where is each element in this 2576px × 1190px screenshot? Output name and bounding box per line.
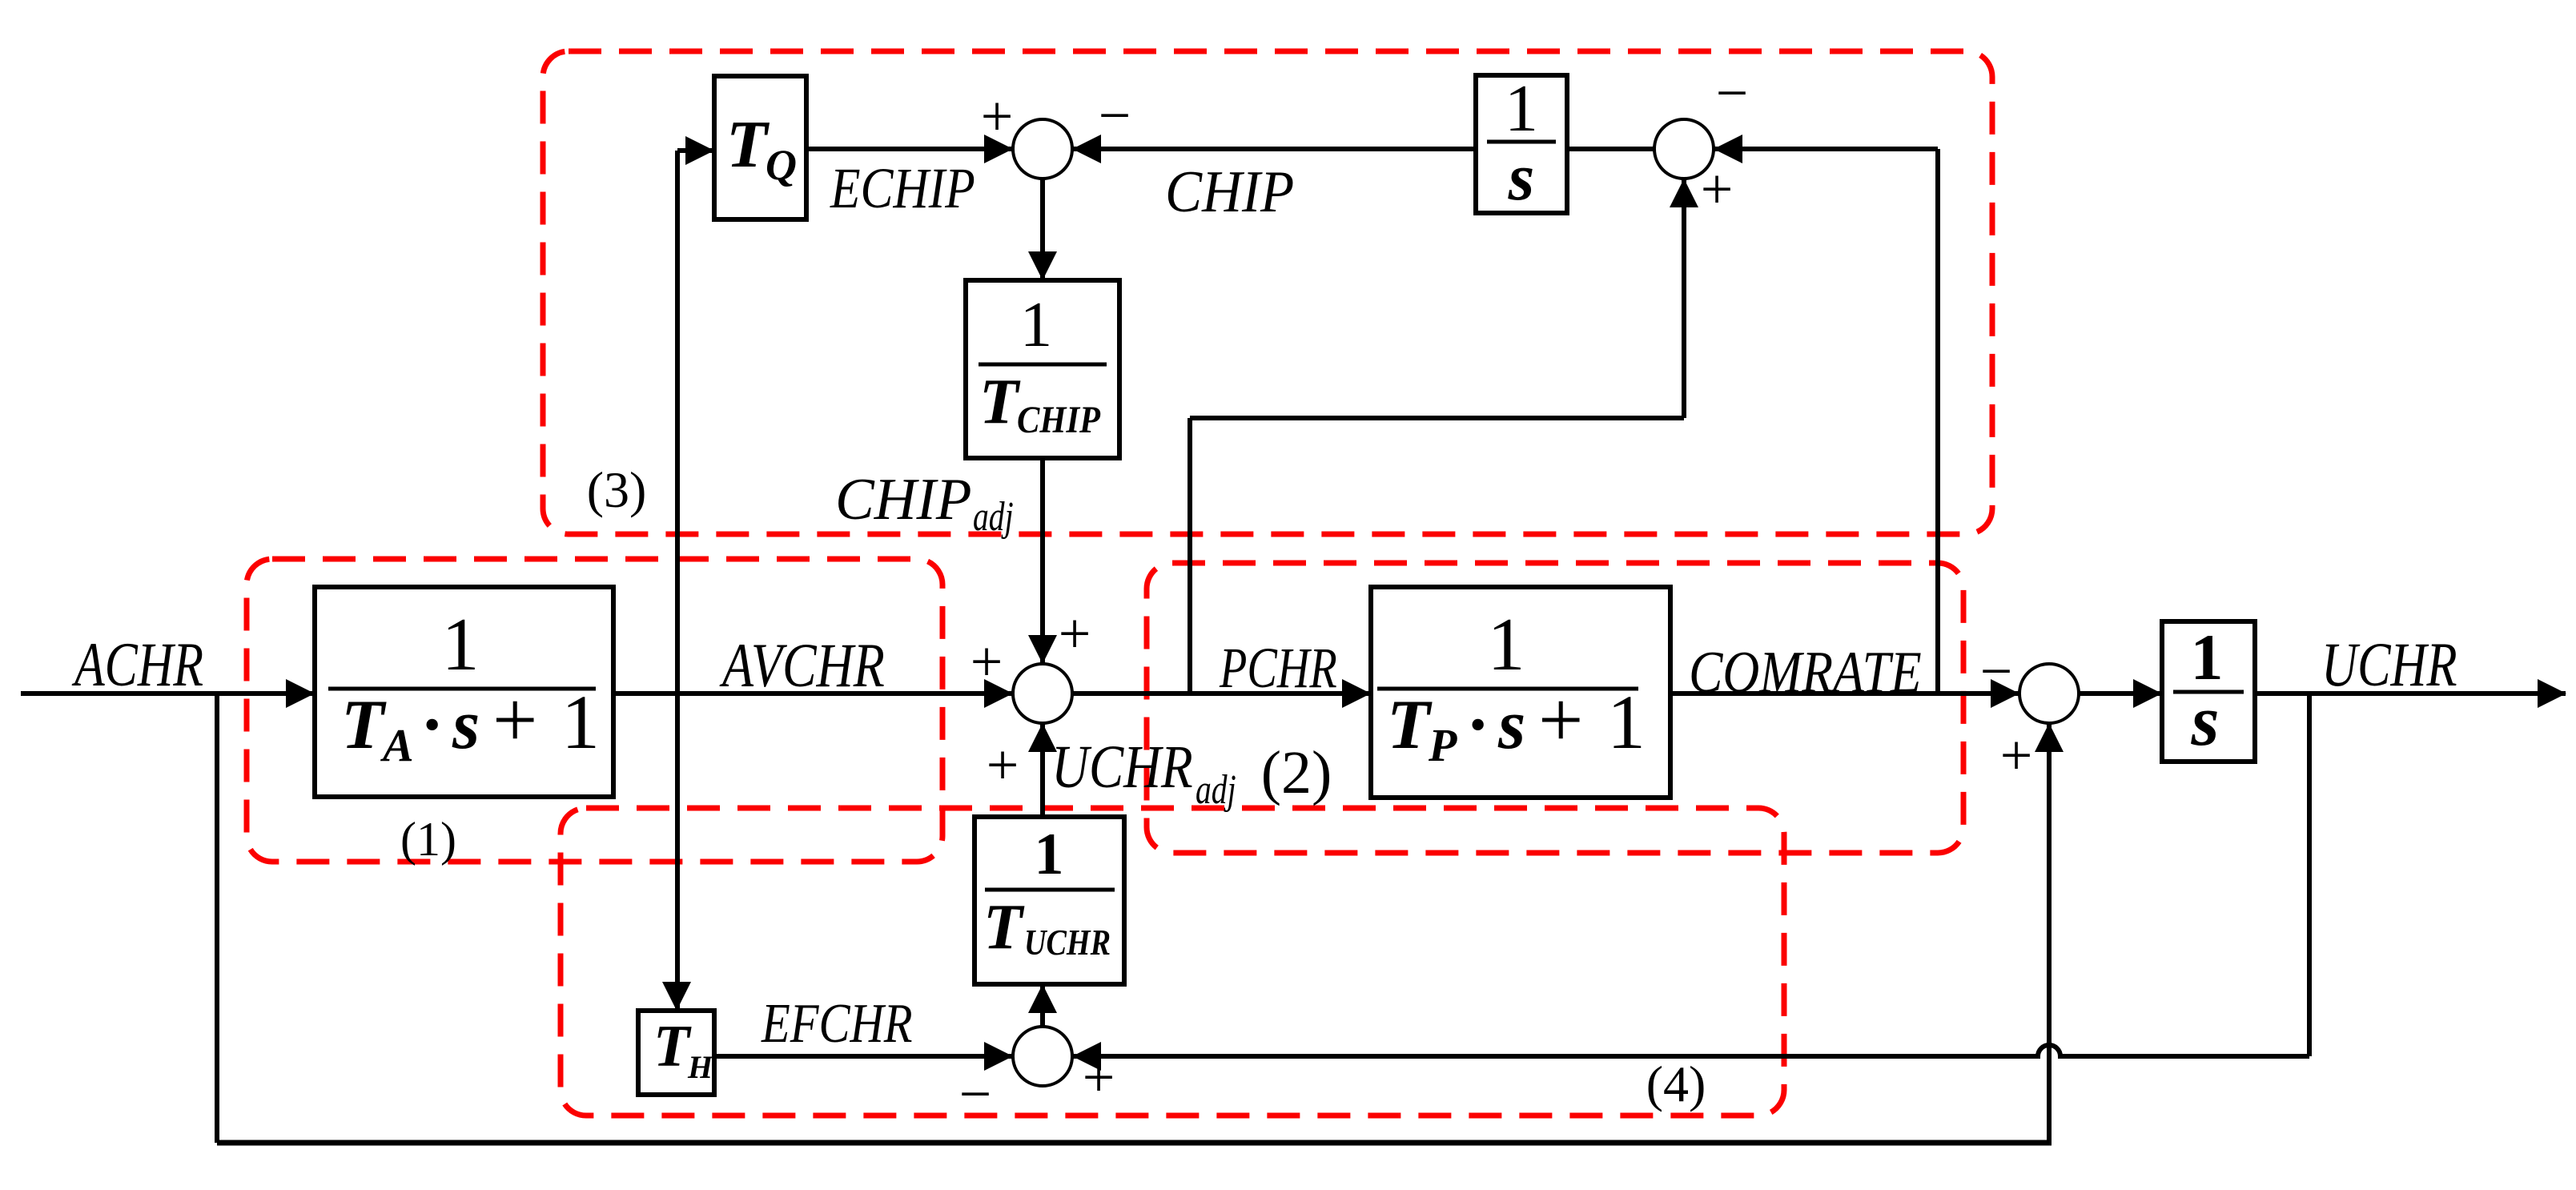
svg-text:T: T — [979, 367, 1021, 437]
svg-text:+: + — [2000, 723, 2033, 787]
svg-text:+: + — [1538, 675, 1583, 764]
arrow into CHIP sum from right — [1072, 135, 1101, 163]
wire CHIP from integrator to sum — [1072, 147, 1476, 151]
block 1/TCHIP fraction — [979, 288, 1107, 441]
svg-text:1: 1 — [442, 603, 480, 686]
label ECHIP — [830, 157, 975, 221]
summing junction EFCHR (bottom) — [1013, 1027, 1072, 1086]
svg-text:CHIP: CHIP — [1017, 399, 1101, 441]
svg-text:P: P — [1428, 719, 1457, 771]
svg-text:PCHR: PCHR — [1219, 635, 1337, 699]
block 1/(TP*s+1) — [1371, 587, 1670, 798]
svg-text:+: + — [1059, 601, 1091, 665]
wire ACHR feedback riser to final sum — [2047, 723, 2052, 1143]
svg-text:1: 1 — [1488, 603, 1525, 686]
label CHIPadj — [835, 466, 1014, 540]
wire into TQ — [677, 148, 714, 153]
sign + at top-right sum bottom — [1701, 157, 1734, 221]
block 1/(TA*s+1) — [315, 587, 613, 797]
svg-text:AVCHR: AVCHR — [719, 631, 884, 700]
block 1/TUCHR fraction — [983, 822, 1115, 963]
wire ECHIP TQ to CHIP sum — [806, 147, 1013, 151]
label EFCHR — [761, 992, 912, 1054]
arrow into TP block — [1342, 679, 1371, 708]
wire UCHR feedback run with hop — [1072, 1045, 2309, 1056]
svg-text:1: 1 — [1020, 288, 1053, 360]
svg-text:CHIP: CHIP — [835, 466, 972, 532]
svg-text:+: + — [987, 733, 1019, 797]
block 1/TUCHR — [975, 817, 1124, 984]
wire AVCHR from TA block to main sum — [613, 691, 1013, 696]
arrow into CHIP sum from left — [984, 135, 1013, 163]
arrow into TA block — [286, 679, 315, 708]
svg-text:ACHR: ACHR — [71, 630, 203, 700]
sign + at bottom sum right — [1083, 1045, 1115, 1109]
label UCHRadj — [1051, 734, 1236, 812]
svg-text:−: − — [1716, 61, 1749, 125]
svg-text:T: T — [726, 107, 770, 182]
svg-text:Q: Q — [766, 141, 797, 189]
arrow into TQ block — [685, 136, 714, 165]
arrow into top-right sum from right — [1714, 135, 1742, 163]
svg-text:1: 1 — [1035, 822, 1064, 887]
label (3) — [587, 461, 647, 518]
svg-text:COMRATE: COMRATE — [1689, 640, 1922, 706]
arrow into final sum from left — [1991, 679, 2019, 708]
wire COMRATE feedback into top-right sum — [1714, 147, 1938, 151]
svg-text:s: s — [452, 686, 480, 764]
block TH text — [653, 1014, 714, 1085]
label (1) — [400, 813, 456, 866]
sign + at main sum bottom — [987, 733, 1019, 797]
label AVCHR — [719, 631, 884, 700]
wire EFCHR TH to bottom sum — [714, 1054, 1013, 1059]
wire ACHR feedback bottom run — [217, 1140, 2052, 1146]
label CHIP — [1165, 159, 1294, 225]
svg-text:(2): (2) — [1261, 739, 1332, 806]
wire ACHR feedback tap down — [215, 693, 219, 1143]
wire ACHR input — [21, 691, 315, 696]
arrow into bottom sum from left — [984, 1042, 1013, 1071]
block TQ text — [726, 107, 797, 189]
svg-text:+: + — [492, 675, 537, 764]
svg-text:EFCHR: EFCHR — [761, 992, 912, 1054]
arrow into main sum from left — [984, 679, 1013, 708]
block TH — [638, 1011, 714, 1095]
svg-text:1: 1 — [1505, 71, 1538, 146]
label COMRATE — [1689, 640, 1922, 706]
svg-text:·: · — [420, 686, 444, 764]
wire PCHR branch into top-right sum — [1682, 179, 1686, 418]
sign + at final sum bottom — [2000, 723, 2033, 787]
svg-text:−: − — [959, 1062, 992, 1126]
label ACHR — [71, 630, 203, 700]
summing junction final (before output integrator) — [2019, 664, 2079, 723]
summing junction CHIP (top left) — [1013, 119, 1072, 179]
svg-text:T: T — [1387, 686, 1433, 764]
svg-text:+: + — [1701, 157, 1734, 221]
wire COMRATE feedback riser — [1935, 149, 1940, 693]
block 1/s output fraction — [2173, 621, 2244, 761]
svg-text:1: 1 — [1607, 679, 1646, 765]
svg-text:UCHR: UCHR — [1024, 922, 1111, 963]
sign + at main sum top — [1059, 601, 1091, 665]
block 1/TCHIP — [966, 280, 1119, 458]
svg-text:A: A — [380, 719, 414, 771]
arrow into final sum from bottom — [2035, 723, 2064, 752]
block TP fraction — [1377, 603, 1646, 771]
sign + at main sum left — [971, 629, 1003, 693]
svg-text:T: T — [983, 892, 1025, 963]
label PCHR — [1219, 635, 1337, 699]
arrow output end — [2538, 679, 2566, 708]
red dashed group box (2) commanded-rate lag — [1147, 563, 1963, 853]
svg-text:ECHIP: ECHIP — [830, 157, 975, 221]
svg-text:H: H — [687, 1049, 714, 1085]
svg-text:+: + — [981, 84, 1014, 148]
wire vertical branch to TQ and TH — [675, 151, 680, 1011]
summing junction main (UCHR adj) — [1013, 664, 1072, 723]
svg-text:s: s — [1508, 140, 1535, 215]
svg-text:adj: adj — [973, 493, 1014, 539]
block 1/s top — [1476, 75, 1567, 213]
svg-text:UCHR: UCHR — [2321, 630, 2457, 699]
wire top-right sum to integrator — [1567, 147, 1654, 151]
wire final sum to output integrator — [2079, 691, 2162, 696]
arrow into main sum from bottom — [1028, 723, 1057, 752]
label (2) — [1261, 739, 1332, 806]
red dashed group box (1) ACHR filter — [247, 559, 942, 862]
svg-text:(4): (4) — [1646, 1055, 1706, 1112]
label UCHR output — [2321, 630, 2457, 699]
label (4) — [1646, 1055, 1706, 1112]
arrow into output integrator — [2133, 679, 2162, 708]
svg-text:adj: adj — [1196, 766, 1236, 812]
svg-text:T: T — [341, 686, 387, 764]
svg-text:s: s — [2190, 681, 2219, 761]
sign + at CHIP sum left — [981, 84, 1014, 148]
svg-text:(1): (1) — [400, 813, 456, 866]
arrow into 1/TCHIP block — [1028, 251, 1057, 280]
arrow into top-right sum from below — [1670, 179, 1698, 207]
svg-text:−: − — [1099, 83, 1131, 147]
svg-text:T: T — [653, 1014, 692, 1079]
arrow into bottom sum from right — [1072, 1042, 1101, 1071]
svg-text:1: 1 — [561, 679, 600, 765]
wire PCHR branch horizontal — [1190, 416, 1684, 420]
wire PCHR main sum to TP block — [1072, 691, 1371, 696]
arrow into TUCHR block — [1028, 984, 1057, 1013]
block TQ — [714, 76, 806, 219]
svg-text:(3): (3) — [587, 461, 647, 518]
wire bottom sum up to 1/TUCHR — [1040, 984, 1045, 1027]
sign - at top-right sum — [1716, 61, 1749, 125]
wire UCHR feedback tap down — [2307, 693, 2312, 1056]
sign - at bottom sum — [959, 1062, 992, 1126]
svg-text:·: · — [1466, 686, 1489, 764]
wire CHIP sum down to 1/TCHIP — [1040, 179, 1045, 280]
svg-text:CHIP: CHIP — [1165, 159, 1294, 225]
wire UCHRadj up to main sum — [1040, 723, 1045, 817]
red dashed group box (3) CHIP estimation loop — [543, 51, 1992, 534]
sign - at CHIP sum right — [1099, 83, 1131, 147]
red dashed group box (4) UCHR correction loop — [561, 808, 1784, 1116]
svg-text:s: s — [1497, 686, 1525, 764]
svg-text:+: + — [971, 629, 1003, 693]
svg-text:−: − — [1980, 639, 2013, 703]
arrow into TH block — [662, 982, 691, 1011]
svg-text:UCHR: UCHR — [1051, 734, 1193, 801]
summing junction top right — [1654, 119, 1714, 179]
sign - at final sum — [1980, 639, 2013, 703]
wire COMRATE TP block to final sum — [1670, 691, 2019, 696]
block 1/s output — [2162, 621, 2255, 762]
wire CHIPadj down to main sum — [1040, 458, 1045, 664]
block 1/s top fraction — [1487, 71, 1556, 215]
arrow into main sum from top — [1028, 635, 1057, 664]
wire PCHR branch riser — [1188, 418, 1192, 693]
block TA fraction — [328, 603, 600, 771]
svg-text:+: + — [1083, 1045, 1115, 1109]
wire UCHR output — [2255, 691, 2566, 696]
